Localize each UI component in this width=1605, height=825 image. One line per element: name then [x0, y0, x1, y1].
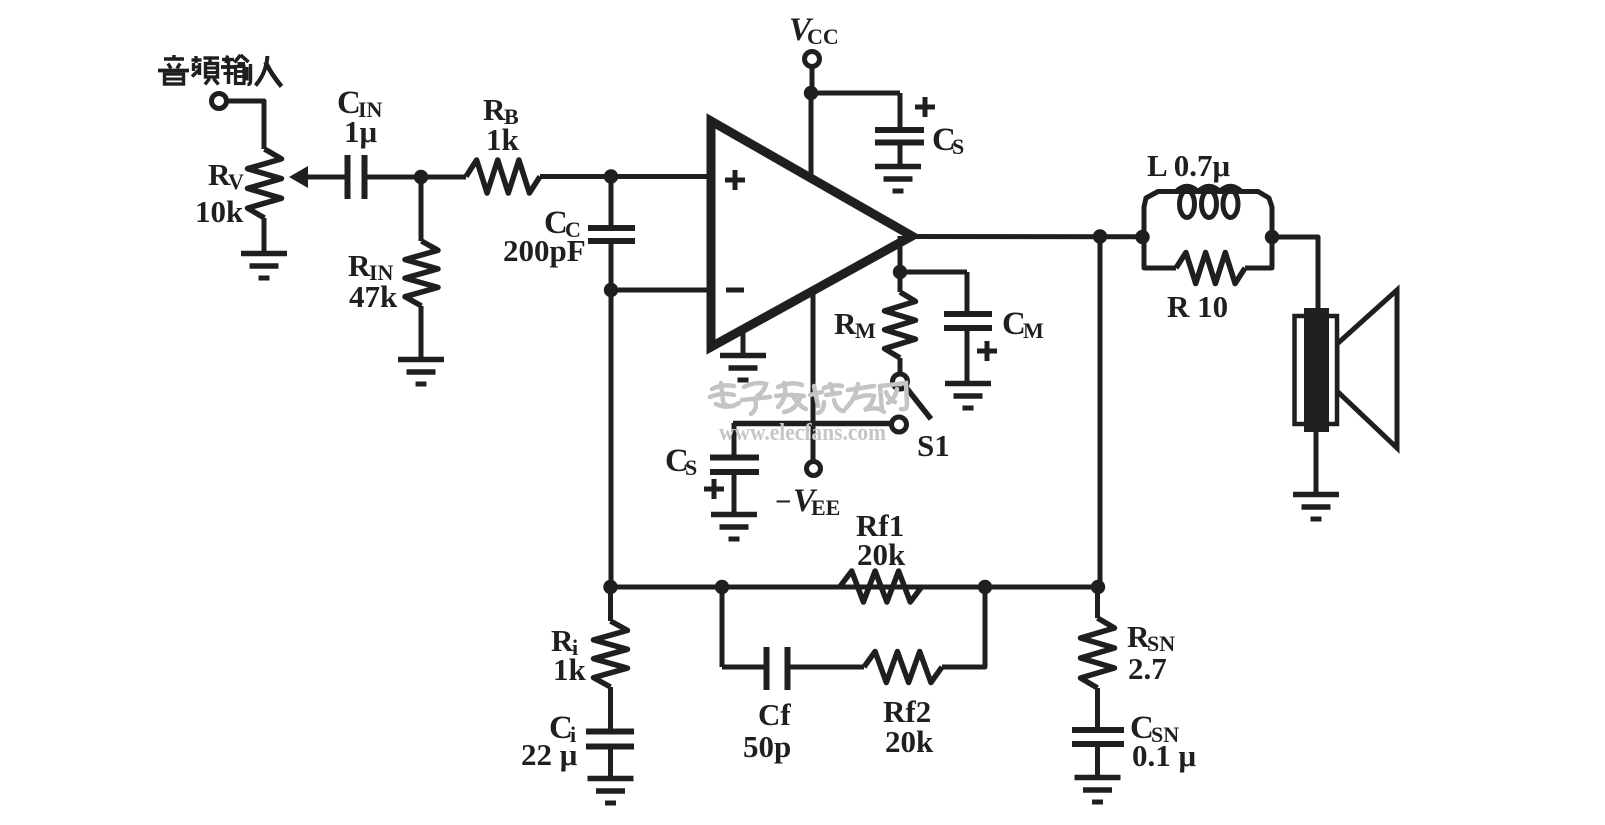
label 0.1u — [1132, 738, 1197, 773]
svg-text:R: R — [348, 248, 371, 283]
capacitor CIN plates — [348, 155, 365, 199]
label 10k — [195, 194, 244, 229]
feedback node right — [978, 580, 992, 594]
wire to Cf — [722, 665, 767, 670]
label CC — [544, 205, 581, 242]
label 20k (Rf2) — [885, 724, 934, 759]
svg-text:M: M — [1023, 318, 1044, 343]
resistor Rf2 body — [864, 652, 942, 683]
label 2.7 — [1128, 651, 1167, 686]
capacitor CS plates (top) — [875, 130, 924, 143]
wire VCC pin — [809, 93, 814, 181]
svg-text:S1: S1 — [917, 428, 950, 463]
label 50p — [743, 729, 791, 764]
svg-text:47k: 47k — [349, 279, 398, 314]
node B junction — [604, 169, 618, 183]
label Rf2 — [883, 694, 931, 729]
svg-text:CC: CC — [807, 24, 839, 49]
wire to RSN — [1095, 587, 1100, 618]
svg-text:www.elecfans.com: www.elecfans.com — [719, 420, 886, 446]
label CIN — [337, 85, 383, 122]
resistor Ri body — [594, 621, 628, 687]
feedback node left — [603, 580, 617, 594]
wire Cf branch down — [720, 587, 725, 667]
label CS (top) — [932, 122, 964, 159]
svg-text:L 0.7μ: L 0.7μ — [1147, 148, 1230, 183]
VCC terminal — [805, 52, 820, 67]
feedback rail — [611, 585, 1099, 590]
op-amp U1 triangle — [711, 121, 912, 347]
wire switch to CS2 — [733, 421, 892, 427]
switch S1 lever — [907, 388, 932, 419]
resistor RSN body — [1081, 618, 1115, 688]
L-R10 side brackets — [1144, 237, 1272, 268]
capacitor Cf plates — [767, 647, 788, 690]
label CS2 — [665, 443, 697, 480]
svg-text:0.1 μ: 0.1 μ — [1132, 738, 1197, 773]
feedback node Cf — [715, 580, 729, 594]
capacitor CSN plates — [1072, 730, 1124, 744]
wire VCC stub — [810, 66, 815, 93]
label 1u — [344, 114, 378, 149]
switch S1 throw contact — [892, 417, 907, 432]
svg-text:22 μ: 22 μ — [521, 737, 578, 772]
wire RM top lead — [898, 272, 903, 292]
wire CM to ground — [965, 328, 970, 384]
wire VEE pin — [811, 292, 816, 462]
wire RB to op-amp — [540, 174, 711, 179]
CS + marker — [915, 97, 935, 117]
label R 10 — [1167, 289, 1228, 324]
wire to speaker — [1272, 237, 1318, 308]
svg-text:50p: 50p — [743, 729, 791, 764]
ground under CS (top) — [875, 167, 921, 192]
label 1k (Ri) — [553, 652, 587, 687]
capacitor CM plates — [944, 314, 992, 328]
ground under CSN — [1075, 778, 1121, 803]
label 22u — [521, 737, 578, 772]
label RSN — [1127, 619, 1175, 656]
label RIN — [348, 248, 394, 285]
wire node C to op-amp — [611, 288, 711, 293]
label L 0.7u — [1147, 148, 1230, 183]
svg-text:10k: 10k — [195, 194, 244, 229]
label 音频输入 (audio input) — [158, 55, 282, 87]
op-amp - input marker — [726, 288, 744, 293]
wire to CS top — [898, 93, 903, 130]
op-amp + input marker — [725, 170, 745, 190]
label 20k (Rf1) — [857, 537, 906, 572]
resistor RB body — [466, 160, 540, 193]
inductor L top path — [1144, 186, 1272, 237]
potentiometer Rv body — [248, 149, 282, 218]
svg-text:1k: 1k — [553, 652, 587, 687]
CM + marker — [977, 341, 997, 361]
Rv wiper arrow — [289, 166, 347, 188]
svg-text:1k: 1k — [486, 122, 520, 157]
wire RM node to CM — [900, 270, 967, 275]
wire VCC to CS — [811, 91, 900, 96]
svg-text:R: R — [834, 306, 857, 341]
feedback node RSN — [1091, 580, 1105, 594]
label Ri — [551, 623, 578, 660]
label Cf — [758, 697, 791, 732]
ground under speaker — [1293, 495, 1339, 520]
resistor R10 body — [1176, 253, 1245, 284]
ground under CS2 — [711, 515, 757, 540]
wire op-amp output — [908, 234, 1318, 240]
label CM — [1002, 306, 1044, 343]
label Rf1 — [856, 508, 904, 543]
label CSN — [1130, 710, 1179, 747]
ground under Rv — [241, 254, 287, 279]
wire CC down to feedback node — [609, 241, 614, 587]
VEE terminal — [807, 462, 821, 476]
label Ci — [549, 710, 576, 747]
CS2 + marker — [704, 479, 724, 499]
svg-text:EE: EE — [811, 495, 840, 520]
wire to Ri — [608, 587, 613, 621]
wire Rf2 up — [942, 587, 985, 667]
wire CM top — [965, 272, 970, 314]
svg-text:M: M — [855, 318, 876, 343]
label 200pF — [503, 233, 586, 268]
label RB — [483, 92, 519, 129]
VCC junction — [804, 86, 818, 100]
label 47k — [349, 279, 398, 314]
label -VEE — [775, 483, 840, 520]
wire output down to feedback — [1098, 237, 1103, 588]
wire node B to CC — [609, 177, 614, 229]
ground under op-amp — [720, 356, 766, 381]
resistor RIN body — [405, 241, 438, 306]
label VCC — [789, 12, 839, 49]
ground under RIN — [398, 360, 444, 385]
ground under CM — [945, 384, 991, 409]
wire RIN to ground — [419, 306, 424, 359]
switch S1 pole — [893, 374, 908, 389]
speaker magnet bar — [1304, 308, 1329, 432]
svg-text:200pF: 200pF — [503, 233, 586, 268]
watermark www.elecfans.com — [719, 420, 886, 446]
input terminal — [212, 94, 227, 109]
label Rv — [208, 157, 244, 194]
wire output to RM node — [898, 236, 903, 272]
svg-text:R 10: R 10 — [1167, 289, 1228, 324]
speaker frame — [1295, 316, 1338, 424]
wire speaker to ground — [1314, 432, 1319, 495]
resistor Rf1 body — [840, 571, 922, 602]
label RM — [834, 306, 876, 343]
wire CS2 to ground — [732, 472, 737, 515]
capacitor Ci plates — [586, 732, 634, 747]
node C junction — [604, 283, 618, 297]
speaker horn — [1337, 290, 1397, 448]
RM node junction — [893, 265, 907, 279]
svg-text:2.7: 2.7 — [1128, 651, 1167, 686]
wire CS to ground — [898, 142, 903, 166]
L-R right node — [1265, 230, 1279, 244]
svg-text:1μ: 1μ — [344, 114, 378, 149]
svg-text:−: − — [775, 486, 792, 518]
node A junction — [414, 170, 428, 184]
svg-text:20k: 20k — [885, 724, 934, 759]
wire CS2 top — [732, 423, 737, 458]
svg-text:S: S — [952, 134, 964, 159]
wire Rv bottom — [262, 218, 267, 253]
resistor RM body — [885, 292, 916, 358]
wire Cf to Rf2 — [788, 665, 865, 670]
capacitor CC plates — [588, 228, 635, 241]
wire RM bottom lead — [898, 358, 903, 374]
wire RSN to CSN — [1095, 688, 1100, 730]
label 1k (RB) — [486, 122, 520, 157]
svg-text:20k: 20k — [857, 537, 906, 572]
wire input to Rv — [227, 101, 265, 149]
svg-text:V: V — [228, 169, 244, 194]
svg-text:S: S — [685, 455, 697, 480]
wire Ri to Ci — [608, 687, 613, 732]
watermark 电子发烧友网 — [710, 383, 907, 414]
wire Ci to ground — [608, 746, 613, 779]
op-amp ground stub — [741, 328, 746, 356]
label S1 — [917, 428, 950, 463]
capacitor CS2 plates — [710, 458, 759, 473]
output junction — [1093, 229, 1107, 243]
wire node A to RIN — [419, 177, 424, 241]
wire CIN to node A — [364, 175, 466, 180]
svg-text:Cf: Cf — [758, 697, 791, 732]
L-R left node — [1135, 230, 1149, 244]
ground under Ci — [588, 779, 634, 804]
wire CSN to ground — [1095, 744, 1100, 778]
